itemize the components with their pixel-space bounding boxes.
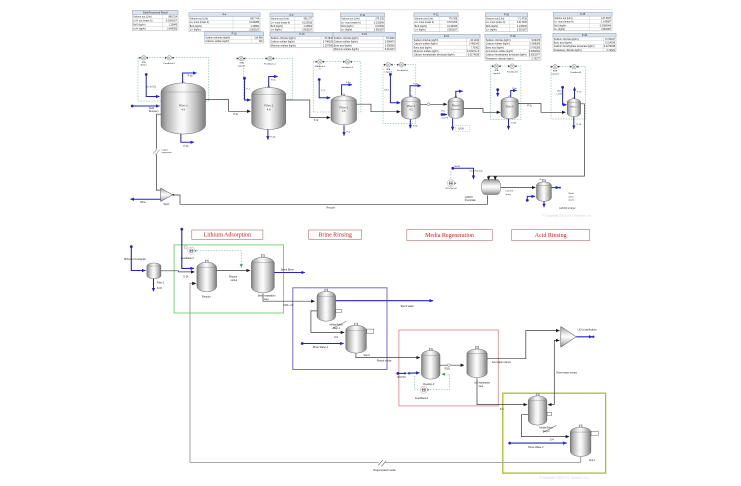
vessel Filter-1 <box>147 263 161 279</box>
stream LR-2 feed <box>561 86 564 89</box>
svg-text:P-24: P-24 <box>362 33 368 36</box>
svg-text:0.317236: 0.317236 <box>517 21 528 24</box>
svg-text:Sep-2: Sep-2 <box>364 354 371 357</box>
svg-text:Calcium hexahydrate dessicate: Calcium hexahydrate dessicate (kg/hr) <box>486 54 527 57</box>
table P-19 <box>270 32 334 47</box>
stream P-3a <box>342 85 352 95</box>
svg-text:Potassium chloride (kg/hr): Potassium chloride (kg/hr) <box>486 57 514 60</box>
svg-text:© Copyright 2023 XYZ Systems,: © Copyright 2023 XYZ Systems, Inc. <box>542 214 593 218</box>
svg-text:Minimum sulfate (kg/hr): Minimum sulfate (kg/hr) <box>334 48 359 51</box>
svg-text:P-2a: P-2a <box>271 79 276 81</box>
controller Liquor-4 <box>553 64 558 69</box>
svg-text:P-1a: P-1a <box>188 76 194 78</box>
svg-text:P-19: P-19 <box>299 33 305 36</box>
controller Liquor-2 <box>386 63 391 68</box>
dashed Feedback-4 <box>197 251 241 268</box>
svg-text:0.0000627: 0.0000627 <box>166 20 178 23</box>
break regenerated media <box>379 460 386 466</box>
title Media Regeneration <box>407 230 492 241</box>
svg-text:S-6: S-6 <box>334 336 338 339</box>
svg-text:Feedback5: Feedback5 <box>570 72 582 74</box>
svg-text:Li+ (kg/hr): Li+ (kg/hr) <box>415 29 426 32</box>
svg-text:Liquor1: Liquor1 <box>238 64 246 67</box>
svg-text:Li+H (kg/hr): Li+H (kg/hr) <box>133 28 146 31</box>
svg-text:1.297066: 1.297066 <box>323 44 334 47</box>
svg-text:Feedback4: Feedback4 <box>397 70 409 72</box>
stream P-2 feed <box>243 77 246 80</box>
controller Feedback-2 <box>420 386 427 393</box>
stream Li+ into V1 <box>145 73 148 76</box>
stream P-2b <box>267 130 269 140</box>
svg-text:Calcium sulfate (kg/hr): Calcium sulfate (kg/hr) <box>271 41 295 44</box>
svg-text:BoS (kg/hr): BoS (kg/hr) <box>190 25 202 28</box>
svg-text:LiOH: LiOH <box>458 129 464 131</box>
control box V6 <box>491 66 521 120</box>
controller 20% NaOH <box>447 180 454 187</box>
svg-text:LiOH: LiOH <box>557 94 562 96</box>
svg-text:Recovery: Recovery <box>149 110 160 113</box>
svg-text:Volume out (L/hr): Volume out (L/hr) <box>554 17 573 20</box>
svg-text:Rinse Water-2: Rinse Water-2 <box>528 446 544 449</box>
table P-4 <box>189 13 260 32</box>
svg-text:4PA: 4PA <box>240 62 245 65</box>
svg-text:Disperser: Disperser <box>451 108 461 111</box>
stream LIX makeup <box>180 228 183 231</box>
line S-3 <box>477 378 527 405</box>
svg-text:4.6: 4.6 <box>181 108 185 112</box>
nozzle Media Rinse right <box>336 309 342 312</box>
controller Feedback-3 <box>345 60 350 65</box>
svg-text:P-4: P-4 <box>223 14 227 17</box>
svg-text:Sep-1: Sep-1 <box>589 459 596 462</box>
svg-text:5.010137: 5.010137 <box>385 48 396 51</box>
line drum second inlet <box>494 176 496 180</box>
svg-text:Volume out (L/hr): Volume out (L/hr) <box>486 18 505 21</box>
table P-24 <box>333 32 396 51</box>
svg-text:Brine: Brine <box>140 201 146 204</box>
table P-14 <box>341 13 385 32</box>
svg-text:4PA: 4PA <box>494 69 499 72</box>
svg-text:3.562187: 3.562187 <box>517 29 528 32</box>
svg-text:S-3: S-3 <box>500 408 504 411</box>
vessel PGen-6 <box>509 96 511 98</box>
stream P-7b <box>573 117 575 129</box>
vessel Brine separation step <box>261 255 264 258</box>
line rinsed media <box>356 353 420 357</box>
svg-text:Feedback-2: Feedback-2 <box>264 64 276 66</box>
svg-text:71.4736: 71.4736 <box>518 18 527 21</box>
title Acid Rinsing <box>512 230 590 241</box>
control box V2 <box>243 58 292 99</box>
svg-text:20.2190: 20.2190 <box>470 39 479 42</box>
svg-text:Sodium chloride (kg/hr): Sodium chloride (kg/hr) <box>205 37 230 40</box>
stream 9% HCl <box>396 372 399 375</box>
svg-text:3.562187: 3.562187 <box>302 29 313 32</box>
svg-text:Li+ in ICs: Li+ in ICs <box>146 87 156 89</box>
stream wash water in <box>526 199 529 202</box>
svg-text:P-1b: P-1b <box>184 146 190 148</box>
svg-text:LR-1: LR-1 <box>384 90 390 92</box>
svg-text:Potassium chloride (kg/hr): Potassium chloride (kg/hr) <box>554 49 582 52</box>
svg-text:2.79277: 2.79277 <box>531 57 540 60</box>
svg-text:Reactor: Reactor <box>202 296 211 299</box>
svg-text:Step-2: Step-2 <box>543 430 551 433</box>
svg-text:Liquor3: Liquor3 <box>493 72 501 75</box>
svg-text:BoS (kg/hr): BoS (kg/hr) <box>271 25 283 28</box>
stream P-6b <box>508 119 510 130</box>
svg-text:118.988: 118.988 <box>254 37 263 40</box>
svg-text:BoS (kg/hr): BoS (kg/hr) <box>341 25 353 28</box>
table P-28 <box>485 13 528 32</box>
svg-text:3.562187: 3.562187 <box>249 29 260 32</box>
box lithium adsorption <box>174 245 283 313</box>
svg-text:0.517236: 0.517236 <box>447 21 458 24</box>
svg-text:P-6a: P-6a <box>512 88 517 90</box>
stream Spent Brine <box>274 272 305 274</box>
vessel Media Rinse Step <box>325 289 328 292</box>
svg-text:0.0279038: 0.0279038 <box>604 45 616 48</box>
svg-text:P-7a: P-7a <box>577 92 582 94</box>
label Media Rinse Step <box>332 321 346 328</box>
svg-text:Sodium chloride (kg/hr): Sodium chloride (kg/hr) <box>334 37 359 40</box>
stream Brine out <box>131 198 161 200</box>
vessel Rxv <box>543 180 546 183</box>
svg-text:Minimum sulfate (kg/hr): Minimum sulfate (kg/hr) <box>414 50 439 53</box>
stream TDa CaCO3 <box>441 113 444 116</box>
svg-text:9% HCl: 9% HCl <box>397 376 406 379</box>
svg-text:1.15894: 1.15894 <box>303 25 312 28</box>
controller Feedback-4t <box>399 63 404 68</box>
break liquid separation <box>153 149 159 154</box>
svg-text:P-16: P-16 <box>232 33 238 36</box>
svg-text:Li+ (kg/hr): Li+ (kg/hr) <box>271 29 282 32</box>
stream P-5a <box>456 91 463 97</box>
pump Spm1 <box>161 188 173 201</box>
svg-text:0.145036: 0.145036 <box>447 25 458 28</box>
table P-31 <box>413 34 480 56</box>
svg-text:0.72622: 0.72622 <box>606 49 615 52</box>
svg-text:Li+ mout (mass fr): Li+ mout (mass fr) <box>341 21 361 24</box>
line R2Li <box>440 364 464 366</box>
control box V4 <box>383 65 416 124</box>
svg-text:BoS (kg/hr): BoS (kg/hr) <box>133 24 145 27</box>
svg-text:1.15894: 1.15894 <box>250 25 259 28</box>
svg-text:Calcium sulfate (kg/hr): Calcium sulfate (kg/hr) <box>205 40 229 43</box>
svg-text:4.5: 4.5 <box>342 110 346 113</box>
nozzle Sep-2 right <box>367 329 374 333</box>
svg-text:slurry: slurry <box>506 193 512 196</box>
svg-text:S-4: S-4 <box>550 439 554 442</box>
svg-text:BoS (kg/hr): BoS (kg/hr) <box>486 25 498 28</box>
controller Acid-3 <box>318 60 323 65</box>
svg-text:Boric acid (kg/hr): Boric acid (kg/hr) <box>414 46 432 49</box>
svg-text:Li+ mout (mass fr): Li+ mout (mass fr) <box>415 21 435 24</box>
line ADS LIX <box>263 293 315 301</box>
line V5-V6 <box>464 108 501 112</box>
line Rinse water extract <box>548 404 554 406</box>
stream P-7a <box>574 87 576 98</box>
line MRS2 loop <box>521 415 569 437</box>
svg-text:S-15: S-15 <box>157 287 163 290</box>
svg-text:Calcium sulfate (kg/hr): Calcium sulfate (kg/hr) <box>486 43 510 46</box>
line V4-V5 <box>420 103 447 105</box>
svg-text:Li+ (kg/hr): Li+ (kg/hr) <box>341 29 352 32</box>
controller Feedback-1 <box>167 56 172 61</box>
line V1 to pump <box>156 114 161 190</box>
controller Liquor-1 <box>239 56 244 61</box>
svg-text:Media Regeneration: Media Regeneration <box>425 233 474 239</box>
svg-text:4PA: 4PA <box>386 68 391 71</box>
svg-text:456.377: 456.377 <box>303 18 312 21</box>
svg-text:Sodium chloride (kg/hr): Sodium chloride (kg/hr) <box>414 39 439 42</box>
svg-text:0.790285: 0.790285 <box>530 46 541 49</box>
stream Brine to Contactor <box>130 245 133 248</box>
drum Li2CO3 Precipitate <box>481 180 500 195</box>
svg-text:P-21: P-21 <box>433 14 439 17</box>
vessel LiCl separation step <box>476 346 479 349</box>
svg-text:Sodium chloride (kg/hr): Sodium chloride (kg/hr) <box>554 38 579 41</box>
svg-text:P-3a: P-3a <box>346 82 351 84</box>
svg-text:Calcium hexahydrate dessicate: Calcium hexahydrate dessicate (kg/hr) <box>414 54 455 57</box>
table P-38 <box>485 34 541 60</box>
svg-text:Spent water: Spent water <box>401 305 415 308</box>
svg-text:P-45: P-45 <box>582 34 588 37</box>
svg-text:Brine to Contactor: Brine to Contactor <box>124 257 146 261</box>
svg-text:BoS (kg/hr): BoS (kg/hr) <box>415 25 427 28</box>
svg-text:Li+ mout (mass fr): Li+ mout (mass fr) <box>486 21 506 24</box>
svg-text:Li2CO3: Li2CO3 <box>506 191 514 193</box>
svg-text:PGen 6: PGen 6 <box>506 106 515 108</box>
table P-21 <box>414 13 458 32</box>
svg-text:4PA Acid-3: 4PA Acid-3 <box>315 65 326 68</box>
svg-text:Li+ (kg/hr): Li+ (kg/hr) <box>486 29 497 32</box>
svg-text:887.744: 887.744 <box>250 17 259 20</box>
svg-text:4.6: 4.6 <box>267 108 271 112</box>
svg-text:Ammonium sulfate (kg/hr): Ammonium sulfate (kg/hr) <box>486 50 514 53</box>
svg-text:3.845955: 3.845955 <box>167 28 178 31</box>
svg-text:PGen 1: PGen 1 <box>179 104 188 108</box>
svg-text:Solid Recovered Result: Solid Recovered Result <box>143 12 168 15</box>
svg-text:0.740047: 0.740047 <box>605 38 616 41</box>
svg-text:Feedback-1: Feedback-1 <box>164 63 176 65</box>
svg-text:Liquor2: Liquor2 <box>385 71 393 74</box>
svg-text:0.153096: 0.153096 <box>374 21 385 24</box>
svg-text:Spent Brine: Spent Brine <box>281 269 295 272</box>
svg-text:P-6b: P-6b <box>511 123 516 125</box>
svg-text:Sodium chloride (kg/hr): Sodium chloride (kg/hr) <box>486 39 511 42</box>
svg-text:9.09478: 9.09478 <box>531 39 540 42</box>
stream Rinse Water-2 <box>508 442 511 445</box>
svg-text:888.314: 888.314 <box>168 16 177 19</box>
stream Rinse Water-1 <box>301 342 304 345</box>
svg-text:Media Rinse: Media Rinse <box>540 426 554 429</box>
vessel Media Rinse Step-2 <box>536 394 539 397</box>
svg-text:3.099366: 3.099366 <box>385 44 396 47</box>
stream P-6 feed <box>496 88 499 91</box>
svg-text:P-38: P-38 <box>510 35 516 38</box>
svg-text:Rinse water extract: Rinse water extract <box>557 372 578 375</box>
svg-text:3.098286: 3.098286 <box>530 43 541 46</box>
mixer LiCl <box>561 327 576 348</box>
svg-text:S-14: S-14 <box>183 275 189 278</box>
top frame line <box>192 9 613 11</box>
stream feed Solid Recovery <box>131 105 134 108</box>
svg-text:BoS (kg/hr): BoS (kg/hr) <box>554 24 566 27</box>
controller Feedback-4 <box>188 247 195 254</box>
stream P-4b <box>409 119 411 128</box>
stream NaOH feed <box>451 167 454 170</box>
svg-text:Calcium sulfate (kg/hr): Calcium sulfate (kg/hr) <box>414 43 438 46</box>
svg-text:Li+ mout (mass fr): Li+ mout (mass fr) <box>271 21 291 24</box>
svg-text:Li+H out (mass fr): Li+H out (mass fr) <box>133 20 152 23</box>
vessel Sep-2 <box>355 323 358 326</box>
svg-text:PGen 7: PGen 7 <box>570 107 578 109</box>
svg-text:0.460343: 0.460343 <box>469 43 480 46</box>
svg-text:separation: separation <box>162 151 173 154</box>
svg-text:CaCO3: CaCO3 <box>441 117 449 119</box>
svg-text:0.0960946: 0.0960946 <box>600 24 612 27</box>
stream LR-1 feed <box>389 73 392 76</box>
svg-text:3.748126: 3.748126 <box>323 41 334 44</box>
svg-text:4PA: 4PA <box>142 61 147 64</box>
line recycle <box>174 195 488 204</box>
nozzle Sep-1 right <box>591 431 598 435</box>
svg-text:7.70062: 7.70062 <box>470 46 479 49</box>
nozzle MRS2 right <box>547 412 552 415</box>
controller Feedback-5 <box>572 64 577 69</box>
svg-text:Boric acid (kg/hr): Boric acid (kg/hr) <box>486 46 504 49</box>
svg-text:322: 322 <box>259 40 264 43</box>
svg-text:5.6021977: 5.6021977 <box>529 54 541 57</box>
control box V7 <box>551 67 586 120</box>
svg-text:P-28: P-28 <box>504 14 510 17</box>
svg-text:step: step <box>264 298 269 301</box>
svg-text:78.4846: 78.4846 <box>324 37 333 40</box>
vessel PGen-3 <box>343 94 345 96</box>
svg-text:P-9: P-9 <box>290 14 294 17</box>
svg-text:Wash: Wash <box>568 193 574 195</box>
svg-text:step: step <box>479 385 484 388</box>
line drum to Rxv <box>501 187 536 189</box>
svg-text:Volume out (L/hr): Volume out (L/hr) <box>415 18 434 21</box>
svg-text:Spm1: Spm1 <box>163 204 170 206</box>
svg-text:P-2b: P-2b <box>271 137 276 139</box>
svg-text:Lithium Adsorption: Lithium Adsorption <box>204 233 252 239</box>
svg-text:R2/Li: R2/Li <box>445 368 451 371</box>
svg-text:0.125036: 0.125036 <box>302 21 313 24</box>
svg-text:P-14: P-14 <box>360 14 366 17</box>
line MediaRinse loop <box>311 311 344 333</box>
stream Spent water <box>336 300 433 302</box>
stream S-15 <box>153 279 155 292</box>
svg-text:4PA: 4PA <box>553 70 558 73</box>
svg-text:P-4a: P-4a <box>413 83 418 85</box>
svg-text:Boric acid (kg/hr): Boric acid (kg/hr) <box>554 42 572 45</box>
table P-35 <box>553 12 612 31</box>
svg-text:Li+ mout (mass fr): Li+ mout (mass fr) <box>190 21 210 24</box>
svg-text:Acid Rinsing: Acid Rinsing <box>535 233 567 239</box>
box brine rinsing <box>293 288 387 370</box>
svg-text:3.562187: 3.562187 <box>374 29 385 32</box>
svg-text:NaOH: NaOH <box>454 166 460 168</box>
svg-text:Calcium sulfate (kg/hr): Calcium sulfate (kg/hr) <box>334 41 358 44</box>
svg-text:Sodium chloride (kg/hr): Sodium chloride (kg/hr) <box>271 37 296 40</box>
svg-text:Calcium hexahydrate dessicate: Calcium hexahydrate dessicate (kg/hr) <box>554 45 595 48</box>
vessel PGen-2 <box>268 86 270 88</box>
stream P-1b <box>181 134 194 142</box>
svg-text:379.335: 379.335 <box>375 18 384 21</box>
svg-text:Li2CO3 precip: Li2CO3 precip <box>469 170 483 173</box>
svg-text:78.4660: 78.4660 <box>386 37 395 40</box>
stream P-3 feed <box>318 78 321 81</box>
svg-text:Precipitate: Precipitate <box>465 199 477 202</box>
line V2-V3 <box>286 100 331 118</box>
line V1-V2 <box>206 99 251 111</box>
svg-text:Acid-1: Acid-1 <box>140 64 147 67</box>
svg-text:0.0094661: 0.0094661 <box>529 50 541 53</box>
label Media Rinse Step-2 <box>543 425 557 432</box>
svg-text:147.4637: 147.4637 <box>601 17 612 20</box>
svg-text:1.15845: 1.15845 <box>168 24 177 27</box>
svg-text:1.145867: 1.145867 <box>601 21 612 24</box>
svg-text:P-31: P-31 <box>444 35 450 38</box>
title Brine Rinsing <box>309 230 362 239</box>
svg-text:Feedback-2: Feedback-2 <box>415 397 429 400</box>
svg-text:Volume out (L/hr): Volume out (L/hr) <box>271 18 290 21</box>
svg-text:Feedback3: Feedback3 <box>507 71 519 73</box>
control box V1 <box>138 58 209 101</box>
stream P-5 <box>343 125 345 136</box>
vessel PGen-1 <box>182 82 184 84</box>
svg-text:LiCl to purification: LiCl to purification <box>578 328 598 331</box>
svg-text:5.314936: 5.314936 <box>605 42 616 45</box>
svg-text:Filter-1: Filter-1 <box>157 282 165 285</box>
controller Feedback-3b <box>510 64 515 69</box>
stream Rxv out right <box>551 187 559 189</box>
line regenerated media <box>190 283 581 462</box>
title Lithium Adsorption <box>192 230 263 239</box>
line Reactor output <box>217 270 250 272</box>
stream P-1a <box>183 73 197 83</box>
svg-text:Boric acid (kg/hr): Boric acid (kg/hr) <box>334 44 352 47</box>
svg-text:PGen 2: PGen 2 <box>264 104 273 108</box>
svg-text:Minimum sulfate (kg/hr): Minimum sulfate (kg/hr) <box>271 44 296 47</box>
svg-text:3.096476: 3.096476 <box>385 41 396 44</box>
line V6-V7 <box>518 104 565 113</box>
svg-text:Brine Rinsing: Brine Rinsing <box>318 233 352 239</box>
vessel PGen-4 <box>410 95 412 97</box>
dashed Feedback-2 <box>415 376 420 390</box>
svg-text:Li2CO3: Li2CO3 <box>465 197 474 199</box>
vessel PGen-5 <box>455 96 457 98</box>
svg-text:Acid wash extract: Acid wash extract <box>492 361 511 364</box>
svg-text:Li+ mout (mass fr): Li+ mout (mass fr) <box>554 21 574 24</box>
svg-text:Regenerated media: Regenerated media <box>374 469 397 472</box>
svg-text:0.0174635: 0.0174635 <box>468 54 480 57</box>
vessel Reactor <box>205 260 208 263</box>
stream P-6a <box>511 91 517 98</box>
line S-14 <box>161 271 195 272</box>
svg-text:Feedback-4: Feedback-4 <box>181 257 194 260</box>
label LiOH <box>456 126 470 132</box>
svg-text:P-7b: P-7b <box>577 124 582 126</box>
table P-45 <box>553 33 616 52</box>
svg-text:© Copyright 2023 XYZ Systems,: © Copyright 2023 XYZ Systems, Inc. <box>539 476 590 480</box>
svg-text:6.10973e-5: 6.10973e-5 <box>467 50 480 53</box>
svg-text:water: water <box>568 195 574 198</box>
svg-text:LR-2: LR-2 <box>557 91 563 93</box>
table Solid Recovered Result <box>133 11 179 31</box>
